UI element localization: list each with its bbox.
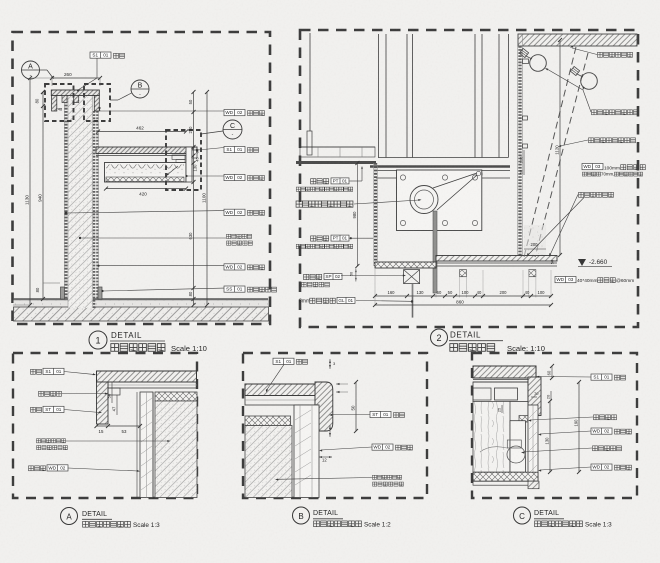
d2 dim 860 [375, 304, 551, 306]
baseboard right [98, 287, 102, 299]
dim 1100 right [206, 92, 208, 305]
d2 label acrylic sign [589, 138, 636, 143]
dC drawer front rect [495, 388, 518, 400]
label 120wall d1 [226, 234, 251, 238]
d2 bulb 2 [570, 66, 597, 89]
d2 hanger rod [309, 33, 311, 131]
title C circle [514, 507, 531, 524]
d2 label shutter door [296, 201, 353, 207]
tag ST01 stone top [90, 52, 111, 58]
d2 shutter corner bolts [400, 175, 405, 180]
d2 slat stack [433, 211, 437, 293]
dA xblock strip [155, 392, 197, 401]
dC bottom band [473, 472, 538, 481]
d2 batten blocks [460, 270, 467, 277]
d2 ceiling slab hatch [518, 34, 637, 46]
dC wood panel [473, 401, 510, 472]
dA label wood [29, 466, 46, 471]
label wd02 e [224, 264, 245, 270]
sub-box B dashed [84, 84, 110, 121]
detail C dashed border [472, 353, 637, 498]
dim chain right1 [193, 92, 195, 305]
d2 belt lines [433, 173, 477, 188]
dim ext lines left [30, 77, 51, 79]
label wd02 a [224, 110, 245, 116]
dB corner block [315, 382, 333, 431]
stone cap middle tabs [62, 96, 67, 103]
d2 facade brackets [523, 59, 529, 64]
dB dim 12 [319, 456, 332, 458]
d2 facade column [518, 46, 521, 257]
d2 xbox left [404, 270, 420, 284]
dB label 120wall [372, 475, 401, 479]
d2 label pt01 b [311, 236, 329, 241]
dB label stone top [273, 358, 294, 364]
dA plank [140, 392, 153, 498]
floor finish band [14, 299, 269, 307]
d2 level mark [578, 259, 586, 266]
d2 sign speckle [524, 225, 546, 255]
d2 shutter box top bold [370, 165, 510, 168]
dim 940 line [42, 92, 44, 299]
sub-box C dashed [166, 130, 201, 190]
label wd02 c [224, 174, 245, 180]
leader A [40, 69, 48, 71]
wall right finish lines [93, 111, 96, 308]
dA label stone2 [31, 407, 42, 412]
d2 dim 100 50 [523, 150, 525, 175]
d2 dim chain bottom [375, 295, 551, 297]
dC dim 130 [549, 401, 551, 472]
dC stone edge [528, 377, 541, 416]
title 2 circle [431, 329, 448, 346]
dC kick block [528, 481, 539, 489]
d2 left guide [374, 163, 377, 266]
d2 witness lines [435, 270, 437, 298]
dA label stone1 [31, 369, 42, 374]
circle marker A [22, 61, 40, 79]
dB dim 3 bot [329, 425, 331, 437]
counter drawer bottom strip [106, 177, 184, 182]
dA label led [39, 391, 62, 396]
counter top underline [96, 155, 197, 157]
counter drawer insulation [106, 165, 184, 174]
d2 stud pair 4 [498, 34, 500, 158]
stone cap left leg [52, 96, 57, 112]
dC drawer band [473, 382, 528, 401]
dC dim 190 [578, 382, 580, 472]
label wd02 d [224, 209, 245, 215]
dA wall hatch [155, 401, 197, 498]
d2 stud pair 3 [474, 34, 476, 158]
wall left finish lines [65, 95, 68, 299]
floor slab hatch [14, 307, 269, 321]
stone cap right leg [94, 96, 99, 112]
d2 label wd03 40mm [555, 277, 576, 283]
dA label 120wall [36, 439, 65, 443]
d2 dim 1120 [559, 40, 561, 255]
dB label stone right [370, 411, 391, 417]
title 1 circle [89, 331, 107, 349]
dA gap lines [152, 392, 154, 498]
dA dim 50 47 [111, 382, 113, 403]
d2 stud pair 1 [378, 34, 380, 158]
dC side board [528, 405, 538, 481]
d2 label spotlight [579, 192, 614, 197]
dC dim 25 [501, 405, 503, 413]
dC label metal [593, 446, 622, 451]
dC handle detail [507, 446, 525, 463]
title A circle [61, 508, 78, 525]
d2 label lightpool [592, 110, 639, 115]
dC dim 60 [551, 366, 553, 378]
detail A dashed border [13, 353, 197, 498]
sub-box A dashed [45, 84, 74, 121]
circle marker B [131, 80, 149, 98]
d2 shutter drum circle [410, 186, 438, 214]
d2 sign dashed [524, 47, 576, 257]
detail B dashed border [243, 353, 427, 498]
dB label wood right [372, 444, 393, 450]
d2 soffit left [375, 262, 436, 268]
dC label wood1 [591, 428, 612, 434]
dC bottom strip [473, 481, 538, 485]
dC label wood2 [591, 464, 612, 470]
detail 2 dashed border [300, 30, 638, 327]
label ss01 [224, 286, 245, 292]
counter right edge pieces [186, 147, 192, 182]
dB dim 50 [355, 382, 357, 431]
d2 glass line [412, 284, 414, 318]
title B circle [293, 507, 310, 524]
baseboard left [61, 287, 65, 299]
dA stone slab [97, 371, 197, 382]
dim 260 [52, 77, 100, 79]
counter drawer box [105, 163, 187, 183]
d2 ceiling panels [300, 147, 375, 157]
dB dim arrows corner [336, 383, 340, 385]
d2 canopy right [436, 256, 557, 262]
d2 shutter box [397, 170, 482, 231]
dB xblock [245, 416, 291, 426]
dC top slab [473, 366, 536, 378]
dim 80 small [43, 282, 60, 284]
d2 dim 50 soffit [355, 269, 357, 282]
counter drawer arrow [167, 166, 178, 175]
label st01 b [224, 146, 245, 152]
dim 420 [106, 188, 186, 190]
dA led notch [108, 388, 120, 395]
dC dim 70 20 [531, 396, 537, 398]
detail 1 dashed border [13, 32, 271, 324]
dB layer2 [245, 396, 315, 406]
dC rail block [519, 416, 528, 423]
dA under board [108, 382, 197, 388]
d2 stud pair 2 [406, 34, 408, 158]
d2 label pt01 a [311, 179, 329, 184]
dC label stone [591, 374, 612, 380]
dB top slab [245, 384, 321, 396]
d2 label wd03 100mm [582, 164, 603, 170]
d2 ceiling line [300, 146, 375, 148]
dC panel front [510, 421, 525, 473]
dC under lines [473, 379, 528, 381]
d2 header line [378, 157, 508, 159]
d2 label sp02 [304, 274, 322, 279]
d2 bolt circles [408, 171, 414, 177]
dC label handle [594, 415, 617, 420]
floor top line [14, 298, 269, 300]
counter top slab hatch [96, 147, 197, 154]
d2 dim 980 [356, 163, 358, 266]
dA stone strip vert [97, 382, 109, 424]
stone cap top band [51, 90, 99, 96]
dB dim 3 top [329, 359, 331, 369]
dim 462 [98, 131, 186, 133]
leader C [201, 131, 223, 134]
dA dim 15 53 [97, 425, 141, 427]
d2 ceiling bold board [296, 161, 376, 164]
leader B [118, 93, 132, 100]
dB wall hatch [245, 426, 292, 498]
wall core hatch [68, 95, 93, 308]
dB plank [294, 405, 319, 498]
d2 bulb 1 [519, 48, 546, 71]
dim 1130 line [29, 78, 31, 305]
d2 label wallpaper [598, 52, 633, 57]
circle marker C [223, 120, 242, 139]
